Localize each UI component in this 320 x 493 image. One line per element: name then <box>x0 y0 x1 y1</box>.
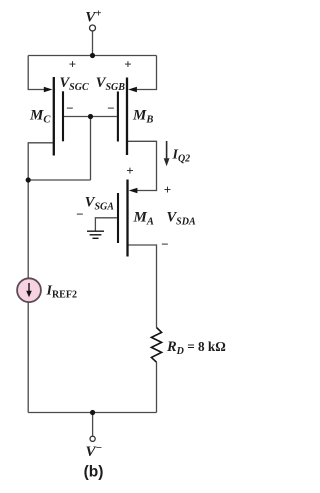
wire resistor to bottom rail <box>156 362 158 412</box>
svg-text:MB: MB <box>132 108 153 126</box>
wire MA gate lead <box>95 218 117 231</box>
svg-text:(b): (b) <box>84 463 104 480</box>
svg-text:−: − <box>161 237 168 252</box>
transistor MB channel bar <box>126 78 128 156</box>
wire left branch to IREF2 and bottom rail <box>27 180 29 413</box>
transistor MA source arrow <box>129 188 138 194</box>
transistor MC gate bar <box>62 91 64 141</box>
junction dot bottom rail <box>90 410 95 415</box>
wire node A horizontal <box>28 179 90 181</box>
wire left branch from rail to MC source <box>28 56 47 90</box>
transistor MA gate bar <box>117 193 119 243</box>
ground <box>87 231 104 238</box>
svg-text:+: + <box>124 56 131 71</box>
transistor MC channel bar <box>53 77 55 156</box>
svg-text:V+: V+ <box>85 8 101 26</box>
svg-text:VSGB: VSGB <box>96 75 125 93</box>
wire gate feedback down <box>90 117 92 181</box>
wire top rail <box>28 55 156 57</box>
svg-text:IREF2: IREF2 <box>46 284 77 301</box>
wire MA drain to resistor <box>128 245 157 328</box>
terminal V+ <box>90 25 96 31</box>
transistor MC source arrow <box>44 87 53 93</box>
svg-text:VSGA: VSGA <box>85 194 114 212</box>
svg-text:IQ2: IQ2 <box>172 148 191 165</box>
current arrow IQ2 <box>166 141 168 160</box>
transistor MB gate bar <box>117 92 119 142</box>
svg-text:VSGC: VSGC <box>60 75 89 93</box>
svg-text:V−: V− <box>86 442 103 460</box>
transistor MB source arrow <box>128 87 137 93</box>
terminal V- <box>90 436 95 441</box>
wire V+ stem <box>92 32 94 56</box>
junction dot at V+ rail <box>90 53 95 58</box>
svg-text:−: − <box>76 207 83 222</box>
wire right branch rail to MB source <box>133 56 157 90</box>
svg-text:RD = 8 kΩ: RD = 8 kΩ <box>166 339 226 357</box>
wire MC drain lead <box>28 143 54 180</box>
junction dot gate line <box>88 114 93 119</box>
current source IREF2 <box>17 278 41 302</box>
svg-text:MC: MC <box>29 108 51 126</box>
wire gate line MC-MB <box>64 116 117 118</box>
transistor MA channel bar <box>126 180 128 257</box>
svg-text:VSDA: VSDA <box>167 210 196 228</box>
svg-text:−: − <box>66 101 73 116</box>
svg-text:−: − <box>107 101 114 116</box>
current source IREF2 arrow <box>28 283 30 294</box>
resistor RD <box>151 328 161 363</box>
svg-text:+: + <box>164 182 171 197</box>
svg-text:MA: MA <box>133 210 154 228</box>
junction node A dot <box>26 177 31 182</box>
wire bottom rail <box>28 412 156 414</box>
svg-text:+: + <box>69 56 76 71</box>
wire V- stem <box>92 413 94 436</box>
svg-text:+: + <box>126 163 133 178</box>
wire MB drain to MA source <box>127 141 157 190</box>
